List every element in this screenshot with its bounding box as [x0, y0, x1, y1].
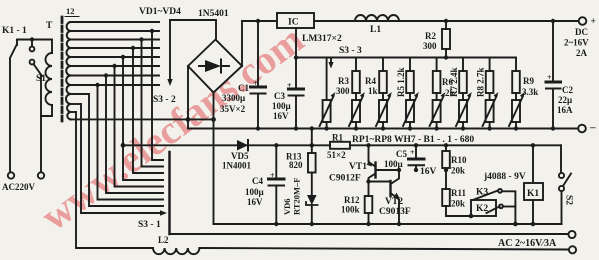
switch S1 — [31, 40, 33, 47]
op-amp U1 IC box — [277, 13, 314, 28]
svg-text:IC: IC — [288, 18, 299, 28]
wire tap6 — [70, 65, 159, 67]
wire tap4 drop — [133, 48, 163, 173]
potentiometer RP1 — [320, 58, 336, 131]
terminal DC minus — [578, 125, 586, 133]
transformer T primary — [51, 40, 53, 54]
svg-text:100k: 100k — [341, 205, 360, 215]
resistor R7 — [449, 58, 467, 129]
relay K1 — [531, 143, 535, 147]
svg-text:R9: R9 — [523, 76, 534, 86]
resistor R1 — [330, 142, 350, 149]
resistor R8 — [476, 58, 494, 129]
svg-text:S3 - 3: S3 - 3 — [339, 46, 362, 56]
resistor R5 — [396, 58, 414, 129]
resistor R2 — [445, 21, 447, 58]
svg-text:R10: R10 — [451, 155, 467, 165]
svg-text:+: + — [591, 17, 596, 27]
node tap3 — [139, 37, 143, 41]
wire tap2 drop — [152, 31, 163, 160]
node tap6 — [112, 64, 116, 68]
svg-text:VD1~VD4: VD1~VD4 — [139, 7, 181, 17]
terminal AC220V left — [8, 172, 14, 178]
wire mains right — [40, 75, 42, 172]
potentiometer RP7 — [483, 92, 499, 131]
capacitor C5 — [415, 145, 417, 159]
node C4 top — [274, 143, 278, 147]
svg-text:300: 300 — [423, 41, 437, 51]
wire tap5 — [70, 56, 159, 58]
transistor VT1 — [366, 143, 370, 147]
wire tap4 — [70, 47, 159, 49]
svg-text:20k: 20k — [451, 199, 465, 209]
wire tap3 drop — [142, 40, 164, 167]
wire sense riser — [311, 129, 313, 146]
svg-text:R11: R11 — [451, 188, 467, 198]
wire control supply rail — [123, 144, 561, 146]
svg-text:VD5: VD5 — [231, 151, 249, 161]
wire tap9 drop — [89, 94, 163, 206]
wire tap6 drop — [115, 66, 164, 187]
potentiometer RP8 — [509, 92, 525, 131]
svg-text:RP1~RP8 WH7 - B1 - . 1 - 680: RP1~RP8 WH7 - B1 - . 1 - 680 — [352, 135, 474, 145]
wire DC minus bus — [188, 128, 578, 130]
wire tap1 — [70, 21, 159, 23]
wire control ground rail — [214, 223, 562, 225]
node C1 top — [256, 19, 260, 23]
terminal DC plus — [579, 17, 587, 25]
svg-text:35V×2: 35V×2 — [220, 104, 246, 114]
svg-text:j4088 - 9V: j4088 - 9V — [483, 172, 526, 182]
svg-text:2~16V: 2~16V — [564, 38, 589, 48]
svg-text:–: – — [589, 122, 596, 134]
wire winding bottom to L2 column — [70, 111, 76, 113]
node C3 bottom — [294, 126, 298, 130]
wire S3-2 to bridge — [170, 20, 216, 39]
potentiometer RP2 — [349, 92, 365, 131]
svg-text:L1: L1 — [370, 25, 381, 35]
transformer T secondary — [66, 22, 71, 119]
svg-text:AC220V: AC220V — [2, 182, 35, 192]
svg-text:S3 - 1: S3 - 1 — [138, 220, 161, 230]
transformer core — [61, 17, 64, 121]
svg-text:+: + — [270, 171, 275, 180]
wire tap3 — [70, 39, 159, 41]
svg-text:100µ: 100µ — [384, 159, 404, 169]
svg-text:VD6: VD6 — [282, 198, 292, 215]
svg-text:C1: C1 — [238, 83, 249, 93]
node R2 top — [444, 19, 448, 23]
transistor VT2 — [389, 181, 391, 196]
svg-text:51×2: 51×2 — [327, 150, 346, 160]
zener VD6 — [307, 195, 317, 205]
wire AC out lower — [76, 112, 153, 248]
svg-text:16A: 16A — [557, 105, 573, 115]
wire S3-3 bus — [296, 57, 516, 59]
node C1 bottom — [256, 126, 260, 130]
terminal AC lower — [569, 246, 576, 253]
wire tap8 — [70, 84, 159, 86]
wire mains top — [17, 39, 52, 41]
svg-text:RT20M–F: RT20M–F — [292, 178, 302, 215]
potentiometer RP3 — [376, 92, 392, 131]
svg-text:+: + — [287, 81, 292, 90]
terminal AC220V right — [38, 172, 44, 178]
svg-text:R12: R12 — [344, 195, 360, 205]
inductor L1 — [355, 15, 399, 21]
wire tap8 drop — [98, 85, 164, 200]
node tap5 — [121, 55, 125, 59]
switch S3-1 wiper bar — [168, 152, 171, 234]
resistor R10 — [444, 143, 448, 147]
svg-text:R4: R4 — [365, 76, 376, 86]
wire tap7 drop — [106, 76, 163, 194]
wire tap10 — [70, 103, 81, 105]
node C2 top — [551, 19, 555, 23]
switch S3-3 wiper — [330, 58, 332, 63]
switch S3-2 wiper — [169, 20, 171, 79]
svg-text:S2: S2 — [564, 195, 574, 205]
svg-text:820: 820 — [289, 160, 303, 170]
svg-text:DC: DC — [575, 27, 588, 37]
svg-text:R7 2.4k: R7 2.4k — [449, 67, 459, 97]
svg-text:16V: 16V — [420, 167, 437, 177]
node R2 bottom — [444, 55, 448, 59]
potentiometer RP5 — [430, 92, 446, 131]
svg-text:L2: L2 — [158, 235, 169, 245]
svg-text:+: + — [253, 79, 258, 88]
svg-text:C9012F: C9012F — [329, 174, 361, 184]
resistor R9 — [512, 58, 538, 129]
svg-text:R3: R3 — [338, 76, 349, 86]
switch S2 — [560, 145, 562, 172]
svg-text:100µ: 100µ — [245, 187, 265, 197]
wire primary bottom — [41, 105, 52, 116]
svg-text:S3 - 2: S3 - 2 — [153, 95, 176, 105]
svg-text:16V: 16V — [273, 111, 289, 121]
svg-text:300: 300 — [336, 86, 350, 96]
diode VD5 — [237, 140, 248, 151]
potentiometer RP6 — [456, 92, 472, 131]
node K contacts — [469, 214, 474, 219]
terminal AC upper — [568, 231, 575, 238]
svg-text:22µ: 22µ — [558, 95, 573, 105]
bridge rectifier VD1~VD4 — [188, 40, 242, 93]
svg-text:C2: C2 — [562, 85, 573, 95]
node C2 bottom — [551, 126, 555, 130]
resistor R11 — [442, 189, 450, 206]
wire tap10 drop S3-1 contact — [81, 104, 160, 213]
svg-text:VT2: VT2 — [385, 197, 403, 207]
svg-text:C5: C5 — [396, 149, 407, 159]
svg-text:AC 2~16V⁄3A: AC 2~16V⁄3A — [498, 238, 557, 249]
svg-text:1N5401: 1N5401 — [198, 9, 229, 19]
resistor R3 — [336, 58, 360, 129]
resistor R13 — [311, 145, 313, 153]
wire tap7 — [70, 75, 159, 77]
wire winding end to bridge AC2 — [70, 118, 214, 120]
resistor R4 — [365, 58, 387, 129]
svg-text:C3: C3 — [274, 91, 285, 101]
node tap2 — [150, 29, 154, 33]
svg-text:16V: 16V — [247, 197, 263, 207]
wire IC adj — [295, 28, 297, 89]
node S1 top — [30, 37, 34, 41]
svg-text:1N4001: 1N4001 — [222, 161, 251, 171]
svg-text:C9013F: C9013F — [379, 207, 411, 217]
svg-text:100µ: 100µ — [272, 101, 292, 111]
svg-text:K1 - 1: K1 - 1 — [2, 26, 27, 36]
wire bridge AC2 down — [213, 93, 215, 225]
capacitor C3 — [289, 88, 304, 91]
wire tap2 — [70, 30, 159, 32]
wire DC plus rail — [242, 21, 578, 66]
svg-text:R5 1.2k: R5 1.2k — [396, 67, 406, 97]
svg-text:K1: K1 — [527, 189, 539, 199]
potentiometer RP4 — [403, 92, 419, 131]
node tap7 — [104, 73, 108, 77]
inductor L2 — [153, 248, 199, 254]
node tap5 feed — [121, 143, 126, 148]
node bridge minus crossing — [186, 117, 191, 122]
capacitor C4 — [275, 145, 277, 179]
svg-text:R2: R2 — [425, 31, 436, 41]
capacitor C2 — [552, 21, 554, 82]
wire AC out upper — [170, 233, 569, 235]
wire bridge minus down — [187, 66, 189, 129]
node IC adj on bus — [294, 55, 298, 59]
node bridge AC2 / winding end — [211, 117, 216, 122]
switch K1-1 — [10, 40, 17, 173]
svg-text:3300µ: 3300µ — [222, 93, 246, 103]
svg-text:3.3k: 3.3k — [522, 87, 538, 97]
svg-text:+: + — [547, 73, 552, 82]
svg-text:C4: C4 — [252, 176, 263, 186]
svg-text:R8 2.7k: R8 2.7k — [476, 67, 486, 97]
resistor R12 — [365, 196, 373, 213]
svg-text:T: T — [46, 21, 53, 31]
wire tap5 drop — [123, 57, 163, 180]
svg-text:2A: 2A — [576, 48, 588, 58]
node tap8 — [95, 83, 99, 87]
svg-text:LM317×2: LM317×2 — [302, 34, 342, 44]
node tap4 — [131, 46, 135, 50]
svg-text:20k: 20k — [451, 166, 465, 176]
svg-text:VT1: VT1 — [349, 162, 367, 172]
capacitor C1 — [257, 21, 259, 87]
svg-text:1k: 1k — [368, 86, 378, 96]
svg-text:+: + — [410, 148, 415, 157]
wire tap9 — [70, 93, 89, 95]
resistor R6 — [433, 58, 455, 129]
svg-text:12: 12 — [66, 6, 75, 16]
